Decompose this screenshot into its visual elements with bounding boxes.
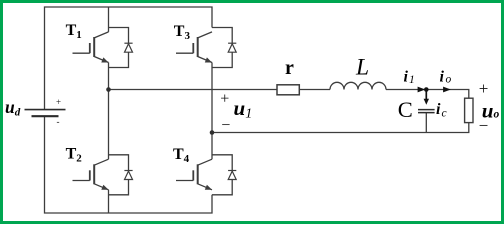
svg-text:T4: T4 <box>173 146 190 165</box>
wire bottom DC rail <box>45 116 213 213</box>
svg-text:C: C <box>398 97 413 122</box>
arrow ic <box>424 91 429 105</box>
wire T3 diode branch <box>212 28 232 68</box>
wire capacitor bottom lead <box>425 112 427 132</box>
diode D3 <box>228 43 236 52</box>
transistor Q1 (T1 IGBT) <box>73 32 109 63</box>
wire T4 diode branch <box>212 155 232 195</box>
svg-text:T2: T2 <box>66 146 83 165</box>
svg-text:-: - <box>57 117 60 127</box>
svg-text:L: L <box>355 55 369 81</box>
load resistor <box>465 98 473 122</box>
svg-text:u1: u1 <box>234 96 253 122</box>
transistor Q3 (T3 IGBT) <box>176 32 212 63</box>
arrow io <box>443 87 451 93</box>
svg-text:T1: T1 <box>66 22 82 41</box>
wire left leg mid segment <box>108 63 110 160</box>
svg-text:+: + <box>220 90 229 107</box>
diode D1 <box>124 43 132 52</box>
wire output bottom <box>212 123 469 133</box>
wire output top <box>109 89 331 91</box>
inductor L <box>330 82 386 89</box>
resistor r <box>277 85 299 95</box>
svg-text:−: − <box>479 116 489 135</box>
node capacitor tap <box>424 87 429 92</box>
wire T2 diode branch <box>109 155 129 195</box>
arrow i1 <box>418 87 426 93</box>
svg-text:i1: i1 <box>404 69 415 86</box>
capacitor C <box>418 110 435 113</box>
node right leg midpoint <box>210 130 215 135</box>
battery source ud <box>25 110 66 117</box>
wire left leg bottom segment <box>108 190 110 213</box>
wire T1 diode branch <box>109 28 129 68</box>
wire top DC rail <box>45 7 213 109</box>
wire right leg mid segment <box>211 63 213 160</box>
transistor Q2 (T2 IGBT) <box>73 159 109 190</box>
node left leg midpoint <box>106 87 111 92</box>
svg-text:+: + <box>56 97 61 107</box>
svg-text:+: + <box>479 79 489 98</box>
wire output top right of inductor <box>386 90 469 99</box>
diode D4 <box>228 171 236 180</box>
svg-text:r: r <box>285 57 294 79</box>
svg-text:−: − <box>221 117 230 134</box>
transistor Q4 (T4 IGBT) <box>176 159 212 190</box>
svg-text:ud: ud <box>5 97 21 118</box>
diode D2 <box>124 171 132 180</box>
svg-text:T3: T3 <box>174 23 191 42</box>
wire left leg top segment <box>108 7 110 32</box>
svg-text:io: io <box>440 69 452 86</box>
svg-text:ic: ic <box>436 101 447 120</box>
